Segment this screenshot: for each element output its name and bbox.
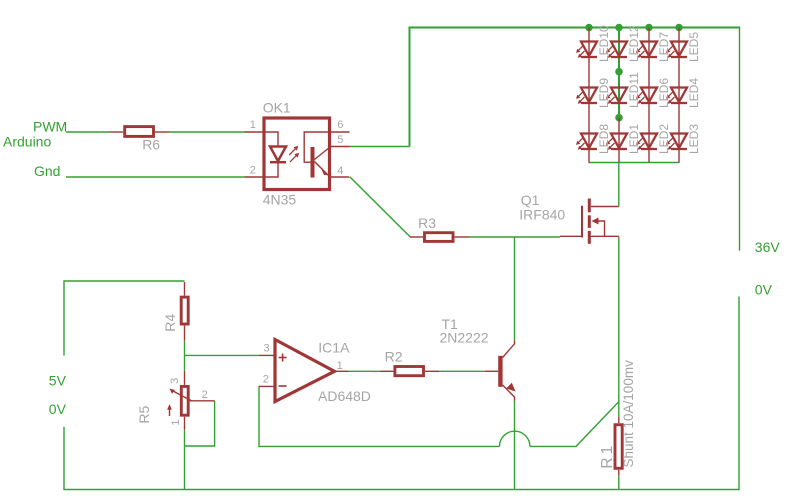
svg-text:Gnd: Gnd [34,163,60,179]
svg-text:LED7: LED7 [657,32,671,62]
svg-text:LED10: LED10 [597,25,611,62]
svg-text:R2: R2 [385,348,403,364]
svg-text:R3: R3 [418,215,436,231]
svg-text:AD648D: AD648D [318,388,371,404]
svg-text:6: 6 [337,119,343,131]
svg-text:LED6: LED6 [657,78,671,108]
svg-text:Q1: Q1 [521,192,540,208]
svg-text:2: 2 [263,374,269,386]
svg-text:R1: R1 [599,443,616,469]
svg-text:5: 5 [337,134,343,146]
svg-text:LED9: LED9 [597,78,611,108]
svg-text:R4: R4 [162,314,178,332]
svg-text:R6: R6 [142,137,160,153]
svg-text:LED5: LED5 [687,32,701,62]
svg-text:5V: 5V [49,372,67,388]
svg-text:Arduino: Arduino [3,133,51,149]
svg-text:4N35: 4N35 [263,192,297,208]
svg-text:OK1: OK1 [263,100,291,116]
svg-text:LED11: LED11 [627,72,641,108]
svg-text:LED2: LED2 [657,124,671,154]
svg-text:IRF840: IRF840 [519,207,565,223]
svg-text:PWM: PWM [33,119,67,135]
svg-text:2: 2 [250,165,256,177]
svg-text:1: 1 [337,360,343,372]
svg-text:2: 2 [202,389,208,401]
svg-text:LED1: LED1 [627,124,641,154]
svg-text:0V: 0V [755,282,773,298]
svg-text:1: 1 [170,419,182,425]
svg-text:3: 3 [169,378,181,384]
svg-text:LED3: LED3 [687,124,701,154]
svg-text:4: 4 [337,165,343,177]
svg-text:LED4: LED4 [687,78,701,108]
svg-text:2N2222: 2N2222 [440,329,489,345]
svg-text:LED12: LED12 [627,25,641,62]
svg-text:1: 1 [250,119,256,131]
svg-text:LED8: LED8 [597,124,611,154]
svg-text:R5: R5 [136,405,152,423]
svg-text:Shunt 10A/100mv: Shunt 10A/100mv [621,360,636,468]
svg-text:36V: 36V [755,239,781,255]
svg-text:3: 3 [264,343,270,355]
svg-text:IC1A: IC1A [318,339,350,355]
svg-text:0V: 0V [49,401,67,417]
